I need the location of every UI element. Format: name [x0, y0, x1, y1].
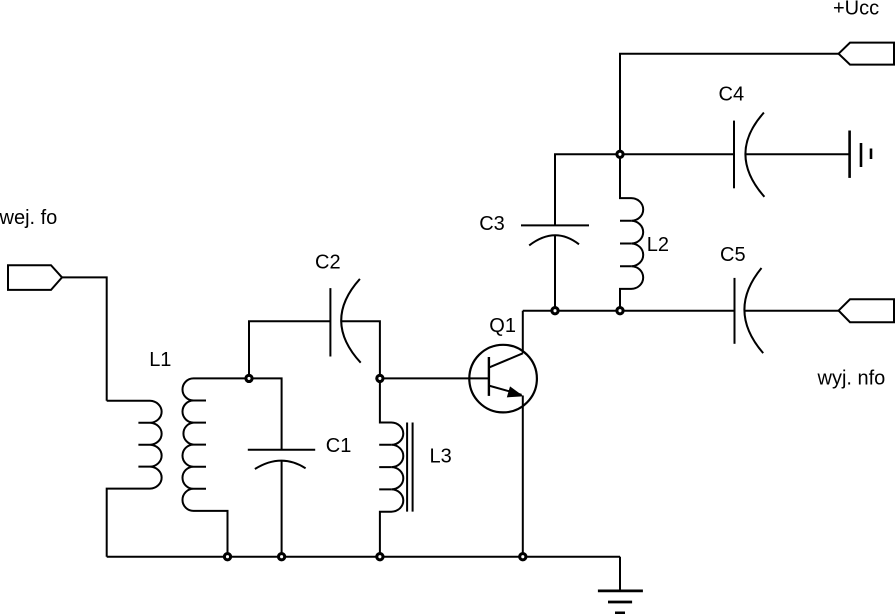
junction L2 collector rail [617, 308, 623, 314]
wire collector rail to C5 [523, 310, 735, 312]
ground symbol bottom [598, 590, 643, 593]
wire C1 to ground rail [281, 461, 283, 557]
wire +Ucc supply [620, 54, 839, 155]
wire rail to ground symbol [619, 557, 621, 591]
wire node A to C1 [249, 378, 282, 449]
svg-text:wyj. nfo: wyj. nfo [817, 367, 886, 389]
wire C4 to chassis ground [745, 153, 849, 155]
svg-text:L1: L1 [149, 349, 171, 371]
wire C3 to collector rail [554, 235, 556, 311]
capacitor C2 [329, 288, 331, 356]
inductor L1 primary winding [107, 401, 162, 557]
capacitor C3 [529, 235, 579, 245]
core of L3 [407, 423, 413, 512]
svg-text:C2: C2 [315, 252, 341, 274]
connector +Ucc [839, 43, 894, 65]
svg-text:wej. fo: wej. fo [0, 207, 57, 229]
capacitor C5 [734, 278, 736, 344]
chassis ground right [848, 131, 851, 178]
svg-text:L3: L3 [430, 445, 452, 467]
inductor L1 secondary winding [182, 378, 249, 556]
connector J2 output [839, 299, 894, 322]
ground rail bottom [107, 556, 620, 558]
svg-text:C5: C5 [720, 244, 746, 266]
wire input to L1 primary [62, 277, 107, 400]
junction L3 ground [377, 554, 383, 560]
svg-text:Q1: Q1 [489, 315, 516, 337]
junction supply top rail [617, 151, 623, 157]
svg-text:+Ucc: +Ucc [833, 0, 879, 19]
wire node A to C2 [249, 321, 330, 378]
capacitor C1 [248, 449, 315, 451]
node B junction [377, 375, 383, 381]
inductor L3 [380, 378, 403, 556]
svg-text:L2: L2 [647, 234, 669, 256]
svg-text:C4: C4 [719, 84, 745, 106]
wire Q1 collector up [522, 311, 524, 354]
junction C3 collector rail [552, 308, 558, 314]
connector J1 input [8, 265, 62, 290]
junction Q1 emitter ground [520, 554, 526, 560]
inductor L2 [620, 154, 643, 310]
svg-text:C3: C3 [479, 213, 505, 235]
wire node B to Q1 base [380, 377, 489, 379]
junction L1 secondary ground [224, 554, 230, 560]
wire C5 to output connector [744, 310, 838, 312]
transistor Q1 [469, 345, 537, 413]
wire Q1 emitter to ground rail [522, 396, 524, 557]
node A junction [246, 375, 252, 381]
wire C3 to top rail [555, 154, 734, 225]
capacitor C4 [733, 121, 735, 189]
wire C2 to node B [341, 321, 380, 378]
junction C1 ground [279, 554, 285, 560]
svg-text:C1: C1 [326, 435, 352, 457]
